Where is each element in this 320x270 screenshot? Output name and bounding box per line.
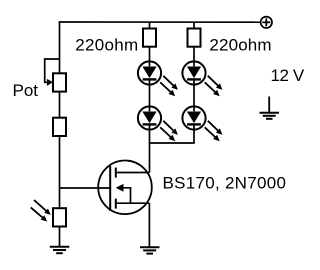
svg-text:12 V: 12 V [271,66,305,85]
wire: LED D1 to LED D2 [149,85,151,108]
LED D2 emission arrows [160,121,178,141]
resistor (lower divider) [53,118,66,136]
LED D1 (chain1 top) [138,61,161,84]
LED D1 emission arrows [160,76,178,96]
wire: top supply rail [59,21,261,23]
resistor 220ohm (chain 2) [188,29,201,47]
potentiometer body [53,73,66,91]
MOSFET Q1 body circle [98,161,152,215]
wire: left column upper vertical [59,21,61,73]
LED D2 (chain1 bottom) [138,106,161,129]
supply terminal + (positive) [261,17,272,28]
wire: drain vertical up to LED junction [149,143,151,173]
MOSFET drain contact and lead [116,168,150,178]
wire: LDR to ground [59,227,61,247]
ground (12 V reference) [260,97,280,119]
MOSFET source contact and lead [116,199,150,209]
wire: gate wire to MOSFET [60,187,111,189]
ground (left, LDR) [50,247,70,253]
LED D3 emission arrows [205,76,223,96]
wire: chain2 stub from rail [193,22,195,29]
wire: source vertical down to ground [148,203,150,247]
wire: between pot and lower resistor [59,92,61,118]
wire: chain2 resistor to LED D3 [193,47,195,62]
potentiometer wiper wire and arrow [45,59,60,86]
svg-text:220ohm: 220ohm [209,36,271,55]
LDR incident-light arrows [31,200,51,222]
LDR (photoresistor) body [53,208,66,226]
MOSFET bulk arrow [116,184,131,203]
svg-text:BS170, 2N7000: BS170, 2N7000 [163,174,287,193]
wire: chain2 LED D4 down to junction [193,130,195,144]
ground (right, source) [140,247,160,253]
MOSFET gate plate [109,166,111,211]
wire: chain1 resistor to LED D1 [149,47,151,62]
svg-text:220ohm: 220ohm [75,36,138,55]
LED D3 (chain2 top) [182,61,205,84]
LED D4 (chain2 bottom) [182,106,205,129]
wire: LED D3 to LED D4 [193,85,195,108]
wire: divider down past gate node to LDR [59,136,61,208]
LED D4 emission arrows [205,121,223,141]
resistor 220ohm (chain 1) [143,29,156,47]
wire: chain1 stub from rail [149,22,151,29]
wire: junction bar joining chains [149,142,195,144]
svg-text:Pot: Pot [13,81,39,100]
wire: chain1 LED D2 down to junction [149,130,151,144]
